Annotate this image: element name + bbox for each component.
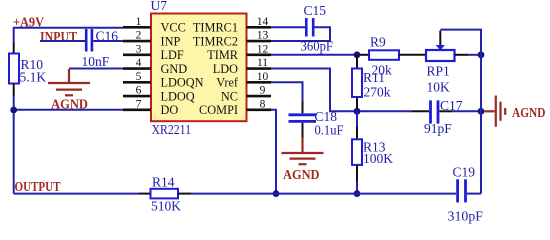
capacitor C16 10nF: [82, 28, 119, 69]
wire +A9V rail to pin 1: [14, 28, 123, 43]
svg-text:11: 11: [257, 57, 268, 69]
wire output rail left: [14, 193, 139, 195]
ground AGND (left): [48, 69, 90, 113]
junction R9/R11 node: [354, 51, 361, 58]
pin 14 TIMRC1: [193, 16, 271, 35]
svg-text:AGND: AGND: [512, 106, 546, 121]
potentiometer RP1 10K: [426, 31, 468, 95]
svg-text:C19: C19: [453, 165, 476, 180]
svg-text:10nF: 10nF: [82, 54, 110, 69]
wire right vertical bus: [480, 30, 482, 194]
svg-text:R14: R14: [152, 174, 175, 189]
svg-text:14: 14: [257, 16, 269, 28]
svg-text:3: 3: [136, 43, 142, 55]
wire pin 14 to C15: [271, 26, 305, 28]
pin 5 LDOQN: [123, 71, 204, 90]
svg-text:310pF: 310pF: [448, 208, 484, 223]
svg-text:U7: U7: [151, 0, 168, 13]
svg-text:VCC: VCC: [161, 21, 186, 35]
pin 7 DO: [123, 98, 178, 117]
svg-text:12: 12: [257, 43, 269, 55]
resistor R9 20k: [357, 35, 426, 78]
svg-text:6: 6: [136, 85, 142, 97]
wire RP1 wiper loop: [440, 30, 481, 55]
svg-text:NC: NC: [221, 89, 238, 103]
wire pin 8 down to output rail: [271, 110, 276, 194]
ground AGND (middle): [282, 138, 324, 183]
wire C19 to vertical bus: [467, 193, 481, 195]
svg-text:R11: R11: [363, 70, 385, 85]
pin 6 LDOQ: [123, 85, 195, 104]
wire RP1 right to vertical bus: [468, 54, 481, 56]
svg-text:Vref: Vref: [216, 76, 239, 90]
resistor R14 510K: [139, 174, 191, 213]
svg-text:5.1K: 5.1K: [20, 70, 47, 85]
svg-text:91pF: 91pF: [424, 121, 452, 136]
wire mid rail to C17: [357, 110, 412, 112]
wire pin 10 down to C18: [271, 82, 303, 101]
svg-text:DO: DO: [161, 103, 179, 117]
wire INPUT to C16: [40, 40, 85, 42]
svg-text:2: 2: [136, 30, 142, 42]
resistor R13 100K: [352, 111, 393, 193]
svg-text:5: 5: [136, 71, 142, 83]
wire pin 11 to mid rail: [271, 69, 357, 112]
svg-text:RP1: RP1: [427, 64, 450, 79]
junction mid rail R11/R13: [354, 108, 361, 115]
capacitor C18 0.1uF: [289, 101, 344, 138]
junction RP1 right: [478, 51, 485, 58]
pin 11 LDO: [213, 57, 271, 76]
svg-text:9: 9: [260, 85, 266, 97]
pin 9 NC: [221, 85, 271, 104]
svg-text:13: 13: [257, 30, 269, 42]
wire C16 to pin 2: [93, 40, 123, 42]
pin 12 TIMR: [207, 43, 271, 62]
svg-text:1: 1: [136, 16, 142, 28]
pin 8 COMPI: [199, 98, 271, 117]
svg-text:510K: 510K: [151, 199, 181, 214]
pin 3 LDF: [123, 43, 184, 62]
svg-text:LDOQN: LDOQN: [161, 76, 204, 90]
svg-text:270k: 270k: [364, 85, 391, 100]
svg-text:R9: R9: [370, 35, 386, 50]
wire pin 4 to ground: [69, 68, 123, 70]
wire DO net (pin 7 to left vertical): [14, 109, 123, 111]
svg-text:TIMRC1: TIMRC1: [193, 21, 238, 35]
junction pin 8 / output rail: [273, 190, 280, 197]
wire C17 to vertical bus: [452, 110, 481, 112]
pin 2 INP: [123, 30, 180, 49]
svg-text:4: 4: [136, 57, 142, 69]
wire left vertical from R10 to output rail: [13, 96, 15, 194]
capacitor C19 310pF: [448, 165, 484, 224]
resistor R11 270k: [352, 55, 391, 112]
junction at DO / left vertical: [10, 107, 17, 114]
wire pin 12 to R9 node: [271, 54, 357, 56]
svg-text:0.1uF: 0.1uF: [315, 123, 344, 138]
svg-text:LDOQ: LDOQ: [161, 89, 195, 103]
svg-text:GND: GND: [161, 62, 188, 76]
svg-text:100K: 100K: [363, 151, 393, 166]
capacitor C15 360pF: [301, 3, 334, 54]
svg-text:10: 10: [257, 71, 269, 83]
svg-text:LDF: LDF: [161, 48, 184, 62]
ground AGND (right, rotated): [485, 96, 546, 127]
resistor R10 5.1K: [9, 43, 46, 97]
svg-text:AGND: AGND: [51, 98, 88, 113]
junction C17 / vertical bus: [478, 108, 485, 115]
svg-text:TIMRC2: TIMRC2: [193, 34, 238, 48]
svg-text:10K: 10K: [427, 79, 451, 94]
svg-text:C15: C15: [304, 3, 327, 18]
pin 10 Vref: [216, 71, 271, 90]
svg-text:INPUT: INPUT: [40, 30, 78, 45]
svg-text:8: 8: [260, 98, 266, 110]
wire output rail to C19: [191, 193, 456, 195]
svg-text:7: 7: [136, 98, 142, 110]
pin 1 VCC: [123, 16, 186, 35]
svg-text:LDO: LDO: [213, 62, 238, 76]
svg-text:INP: INP: [161, 34, 181, 48]
svg-text:XR2211: XR2211: [152, 122, 192, 137]
svg-text:TIMR: TIMR: [207, 48, 239, 62]
pin 4 GND: [123, 57, 187, 76]
svg-text:COMPI: COMPI: [199, 103, 238, 117]
svg-text:AGND: AGND: [283, 168, 320, 183]
IC U7 body (XR2211): [151, 14, 247, 122]
pin 13 TIMRC2: [193, 30, 271, 49]
wire C15 to pin 13: [271, 27, 330, 41]
junction R13 / output rail: [354, 190, 361, 197]
capacitor C17 91pF: [412, 98, 463, 136]
